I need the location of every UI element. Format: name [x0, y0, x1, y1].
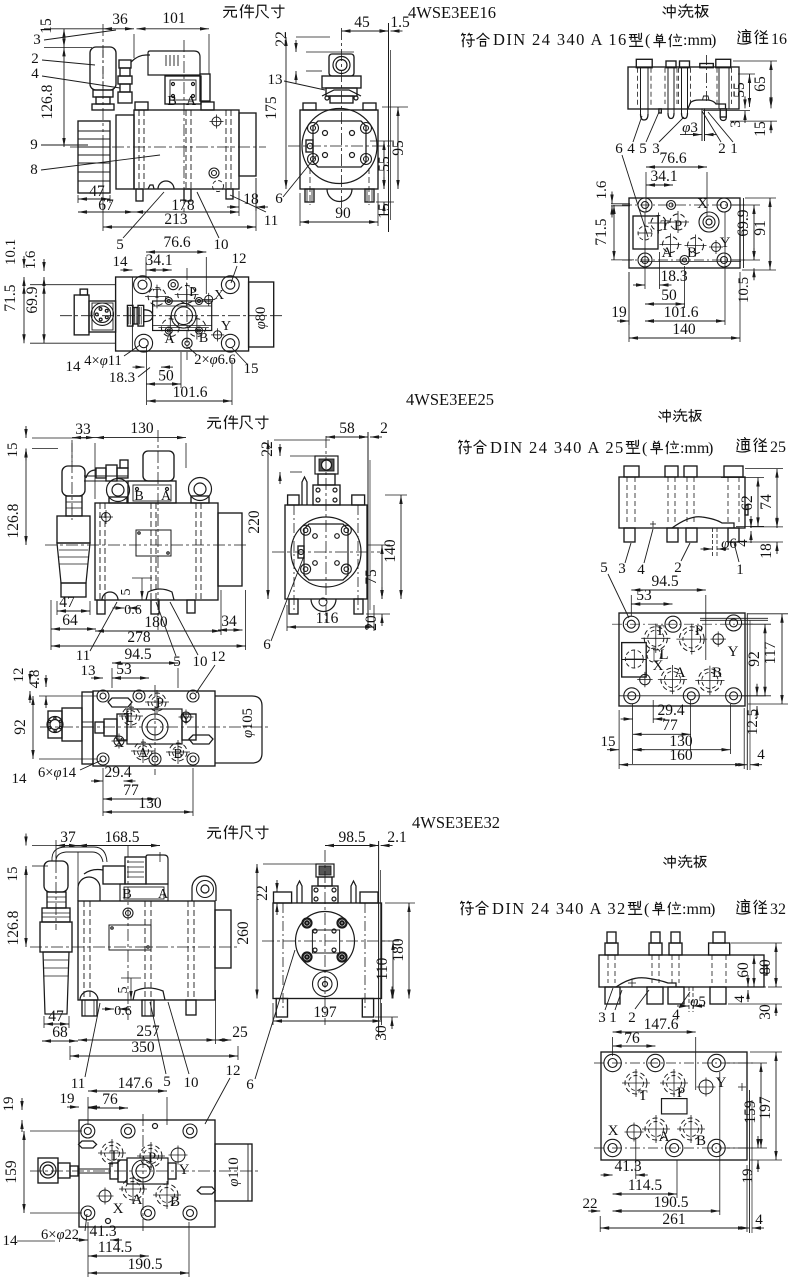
valve top X Y small ports [205, 295, 213, 303]
svg-text:T: T [638, 1088, 647, 1104]
dim 190.5 top 32 [88, 1272, 189, 1274]
svg-text:65: 65 [752, 76, 769, 92]
svg-text:11: 11 [71, 1076, 85, 1092]
vent plug 25 [102, 513, 111, 522]
side view inner flange 25 [304, 524, 348, 580]
dim 37 [56, 845, 78, 847]
svg-text:69.9: 69.9 [735, 209, 752, 236]
dim 10.5 vertical plate [753, 248, 755, 260]
dim 5 vertical 32 [130, 978, 132, 1000]
cable elbow [131, 55, 150, 62]
valve top middle assembly 32 [38, 1158, 58, 1183]
centerlines 32 front [30, 946, 240, 948]
valve top coupling stack [127, 305, 133, 326]
dim 101 [137, 28, 210, 30]
dim 159 vertical plate 32 [760, 1063, 762, 1148]
dim 95 vertical [397, 107, 399, 189]
svg-text:4: 4 [637, 562, 645, 578]
svg-text:74: 74 [758, 494, 775, 510]
valve top small ports 32 [171, 1148, 185, 1162]
dim 160 plate 25 [619, 764, 744, 766]
svg-text:): ) [708, 440, 713, 457]
heading: flushing plate (section 25) [659, 410, 670, 422]
svg-text:A: A [186, 94, 197, 109]
dim 50 plate [645, 303, 685, 305]
dim 34.1 plate [646, 184, 673, 186]
plate seal land curve [688, 100, 726, 108]
valve top bolts 25 [97, 690, 109, 702]
side view tie rod dashed lines [309, 168, 311, 205]
svg-text:A: A [675, 665, 686, 681]
plate stud dashed holes 32 [607, 955, 609, 983]
dim 10.1 vertical top view [23, 256, 25, 268]
svg-text:14: 14 [12, 771, 28, 787]
svg-text:50: 50 [661, 287, 677, 304]
svg-text:5: 5 [173, 654, 181, 670]
svg-text:A: A [138, 746, 149, 761]
svg-text:2: 2 [380, 420, 388, 437]
plate studs above 32 [605, 943, 618, 955]
svg-text:P: P [189, 285, 197, 300]
dim 260 vertical [256, 864, 258, 999]
dim 197 vertical plate 32 [775, 1052, 777, 1160]
svg-text:15: 15 [5, 443, 21, 458]
svg-text:260: 260 [235, 921, 252, 945]
dim 77 plate 25 [633, 733, 691, 735]
svg-text:1.6: 1.6 [23, 250, 39, 269]
svg-text:5: 5 [600, 560, 608, 576]
feet 25 [97, 600, 105, 614]
valve top view rect 16 [116, 277, 249, 351]
valve top ports 25 [148, 693, 166, 711]
svg-text:45: 45 [354, 14, 370, 31]
svg-text:A: A [158, 887, 169, 902]
dim 18.3 top view [133, 366, 145, 368]
svg-text:14: 14 [3, 1233, 19, 1249]
svg-text:213: 213 [164, 211, 188, 228]
svg-text:B: B [173, 747, 182, 762]
svg-text:8: 8 [30, 162, 38, 178]
dim 71.5 vertical top view [23, 285, 25, 344]
svg-text:126.8: 126.8 [39, 84, 56, 119]
svg-text:76: 76 [102, 1091, 118, 1108]
horizontal centerline front view [70, 146, 266, 148]
dim 41.3 plate 32 [601, 1174, 613, 1176]
dim 71.5 vertical plate [613, 205, 615, 260]
dim 213 [103, 226, 256, 228]
dim 45 [342, 30, 389, 32]
dim 60 vertical 32 [753, 955, 755, 987]
svg-text:B: B [170, 1194, 180, 1210]
port B dashed [688, 238, 704, 254]
svg-text:T: T [153, 287, 162, 302]
svg-text:B: B [712, 665, 722, 681]
svg-text:2×φ6.6: 2×φ6.6 [194, 352, 236, 368]
dim 101.6 plate [645, 320, 725, 322]
body internals dashed 32 [83, 901, 85, 1000]
svg-text:4: 4 [757, 747, 765, 763]
connector sub-block right [200, 74, 210, 101]
dim 69.9 vertical top view [43, 285, 45, 344]
dim 261 plate 32 [600, 1227, 747, 1229]
plate top corner bolts [638, 198, 652, 212]
svg-text:92: 92 [12, 719, 29, 735]
dim 19 plate [617, 320, 629, 322]
dim 197 32 [273, 1020, 382, 1022]
label: nominal size 25 [737, 438, 750, 452]
valve top centerlines 32 [30, 1170, 260, 1172]
dim 33 [72, 437, 95, 439]
svg-text:1: 1 [730, 141, 738, 157]
dim 110 vertical 32 [392, 941, 394, 999]
subplate reference line 1.5 [388, 23, 390, 232]
valve top left flange 25 [82, 692, 93, 764]
feet under body [136, 189, 143, 201]
plate stud 3 [680, 61, 690, 68]
svg-text:76.6: 76.6 [163, 234, 190, 251]
dim 55 plate vertical [749, 74, 751, 107]
svg-text:P: P [695, 623, 703, 639]
svg-text:12: 12 [226, 1063, 241, 1079]
svg-text:2.1: 2.1 [387, 829, 406, 846]
svg-text:φ105: φ105 [240, 708, 256, 738]
pipe lines 25 [82, 721, 93, 723]
svg-text:5: 5 [116, 987, 131, 994]
valve top middle assembly 25 [95, 722, 104, 733]
dim 76.6 top view [146, 251, 206, 253]
svg-text:75: 75 [363, 569, 380, 585]
dim 25 32 [216, 1039, 232, 1041]
plate right nub 32 [764, 965, 767, 975]
svg-text:67: 67 [98, 197, 114, 214]
centerlines 25 front [45, 544, 248, 546]
svg-text:47: 47 [59, 594, 75, 611]
feet 32 [82, 1000, 97, 1016]
side view: body square 16 [300, 110, 378, 189]
plug stack 32 [125, 857, 146, 884]
svg-text:13: 13 [268, 72, 283, 88]
svg-text:4WSE3EE32: 4WSE3EE32 [412, 813, 500, 832]
svg-text:(: ( [644, 901, 649, 918]
svg-text:0.6: 0.6 [124, 603, 142, 618]
lifting eye right [189, 478, 212, 501]
svg-text:B: B [122, 887, 131, 902]
pilot valve body 25 [128, 481, 176, 503]
tie-rod dashed holes in body [138, 110, 140, 189]
svg-text:101.6: 101.6 [173, 384, 208, 401]
subplate line 2.1 32 [378, 841, 380, 1037]
svg-text:76.6: 76.6 [659, 150, 686, 167]
svg-text:(: ( [645, 32, 650, 49]
svg-text:A: A [161, 489, 172, 504]
svg-text:3: 3 [618, 561, 626, 577]
nameplate 32 [109, 925, 151, 950]
dim 1.6 vertical plate [611, 192, 613, 204]
side top tabs 32 [274, 892, 292, 903]
svg-text:15: 15 [376, 203, 393, 219]
plate port cap center [700, 64, 714, 68]
bottom locating notch arc [158, 181, 174, 189]
dim 147.6 plate 32 [613, 1031, 696, 1033]
svg-text:4: 4 [31, 66, 39, 82]
valve top spool assembly [153, 301, 212, 331]
svg-text:140: 140 [672, 321, 696, 338]
svg-text:147.6: 147.6 [644, 1016, 679, 1033]
svg-text:11: 11 [264, 213, 278, 229]
svg-text:130: 130 [130, 420, 154, 437]
plate top view rect 16 [629, 198, 740, 268]
dim 4 plate 32 [738, 1227, 750, 1229]
svg-text:12.5: 12.5 [745, 709, 761, 735]
plate ports 25 [644, 627, 667, 650]
dim 14 top view [120, 269, 132, 271]
dim 92 vertical top 25 [32, 696, 34, 759]
port P dashed [670, 214, 686, 230]
svg-text:Y: Y [728, 644, 739, 660]
svg-text:10: 10 [214, 237, 229, 253]
plate studs below 32 [605, 987, 620, 1004]
svg-text:36: 36 [112, 11, 128, 28]
svg-text:69.9: 69.9 [24, 286, 41, 313]
dim 12.5 vertical plate 25 [756, 684, 758, 696]
dim 15 vertical 25 [25, 426, 27, 438]
valve top centerlines [60, 315, 282, 317]
svg-text:94.5: 94.5 [124, 646, 151, 663]
front view: valve body 25 [95, 503, 218, 600]
valve top small ports 25 [181, 712, 191, 722]
dim 190.5 plate 32 [613, 1210, 720, 1212]
svg-text:B: B [167, 94, 176, 109]
valve top center big circle [171, 303, 196, 328]
dim 77 top 25 [103, 798, 157, 800]
dim 257 32 [78, 1039, 216, 1041]
svg-text:34: 34 [221, 613, 237, 630]
front view: pilot block item 9 [78, 121, 110, 193]
dim 19 vertical plate 32 [757, 1136, 759, 1148]
svg-text:10: 10 [184, 1075, 199, 1091]
dim 15 plate 25 [607, 749, 619, 751]
dim 76.6 plate [646, 166, 707, 168]
plate top edge reference lines [611, 203, 630, 205]
dim 15 vertical [63, 29, 65, 48]
svg-text::mm: :mm [683, 32, 713, 49]
svg-text:94.5: 94.5 [651, 573, 678, 590]
side inner rect 32 [312, 930, 339, 953]
port Y small [712, 243, 721, 252]
dim 350 32 [70, 1055, 238, 1057]
plate small cross right 32 [738, 1086, 746, 1088]
dim 53 plate 25 [631, 603, 672, 605]
side top tabs 25 [288, 495, 299, 505]
dim 76 plate 32 [613, 1045, 656, 1047]
main electrical connector block [148, 51, 200, 75]
dim 15 plate vertical [770, 96, 772, 108]
dim 18.3 plate [633, 284, 645, 286]
dim 74 vertical [776, 469, 778, 527]
svg-text:160: 160 [669, 747, 693, 764]
side tie rod dash lines 25 [293, 505, 295, 610]
valve top lugs 32 [79, 1141, 97, 1148]
plate right nub 25 [745, 505, 748, 515]
svg-text:110: 110 [374, 957, 391, 980]
left filter stack 25 [62, 466, 85, 496]
dim 19 vertical top 32 [21, 1098, 23, 1110]
dim 47 25 [57, 610, 90, 612]
plate top rect 32 [601, 1052, 747, 1160]
svg-text:58: 58 [339, 420, 355, 437]
svg-text:77: 77 [662, 717, 678, 734]
svg-text:X: X [113, 1201, 124, 1217]
svg-text:64: 64 [62, 612, 78, 629]
svg-text:126.8: 126.8 [5, 910, 22, 945]
dim phi5 pin 32 [688, 987, 690, 1012]
vent plug circle top right [212, 117, 221, 126]
svg-text:5: 5 [116, 237, 124, 253]
side view body 32 [273, 903, 382, 999]
svg-text:B: B [687, 245, 697, 261]
dim 19 top 32 [67, 1106, 79, 1108]
dim 4.8 vertical 25 [45, 675, 47, 687]
svg-text:φ80: φ80 [253, 307, 269, 330]
svg-text:175: 175 [263, 96, 280, 120]
valve top left connector box [74, 295, 89, 335]
svg-text:T: T [655, 623, 664, 639]
svg-text:14: 14 [66, 359, 82, 375]
svg-text:6: 6 [263, 637, 271, 653]
front view: valve body 16 [134, 110, 239, 189]
dome left on body top [78, 877, 100, 901]
front view: valve body 32 [78, 901, 215, 1000]
plate L port 25 [647, 648, 661, 662]
svg-text:55: 55 [731, 82, 748, 98]
valve top ports dashed [148, 288, 166, 306]
dim 180 25 [95, 630, 221, 632]
svg-text:3: 3 [33, 32, 41, 48]
valve top right extension phi80 [249, 282, 274, 347]
svg-text:92: 92 [746, 651, 763, 667]
svg-text:12: 12 [211, 649, 226, 665]
plate centerlines 32 [594, 1062, 756, 1064]
side feet 32 [276, 999, 287, 1018]
connector elbow 32 [103, 866, 125, 884]
svg-text:47: 47 [48, 1008, 64, 1025]
svg-text:25: 25 [770, 439, 786, 456]
plate top bolts 25 [623, 616, 639, 632]
svg-text:41.3: 41.3 [614, 1158, 641, 1175]
side view circle 32 [296, 912, 355, 971]
connector item 4 fittings [119, 60, 131, 68]
side port stub [306, 140, 313, 152]
dim phi3 pin [701, 108, 703, 141]
dim 68 32 [42, 1040, 78, 1042]
dim 94.5 top 25 [112, 662, 178, 664]
vent plug 32 [123, 908, 133, 918]
dim 5 vertical 25 [141, 578, 143, 600]
side centerlines 32 [324, 850, 326, 1025]
spec line: DIN 24 340 A 32 (unit mm) [461, 901, 474, 914]
dim 30 vertical plate 32 [775, 975, 777, 987]
svg-text:4: 4 [627, 141, 635, 157]
svg-text:62: 62 [739, 495, 756, 511]
dim 114.5 top 32 [88, 1255, 149, 1257]
svg-text:X: X [608, 1123, 619, 1139]
valve top lugs 25 [108, 698, 132, 707]
plate ports 32 [625, 1072, 647, 1094]
dome right on body top [192, 876, 216, 901]
dim 117 vertical plate 25 [781, 614, 783, 704]
plate studs above 25 [624, 466, 639, 477]
front view: right end cap 25 [218, 513, 242, 586]
plate top step lines right [700, 617, 768, 619]
svg-text:147.6: 147.6 [118, 1075, 153, 1092]
front view: right end cap 32 [215, 910, 231, 968]
dim 140 vertical 25 [400, 495, 402, 599]
svg-text:18.3: 18.3 [660, 268, 687, 285]
plate seal land 25 [672, 517, 734, 528]
dim 47 [78, 198, 110, 200]
pilot valve body under connector [165, 76, 201, 104]
svg-text:10: 10 [193, 654, 208, 670]
svg-text:B: B [134, 489, 143, 504]
bottom arches 32 [80, 991, 98, 1000]
svg-text:4WSE3EE25: 4WSE3EE25 [406, 390, 494, 409]
svg-text:1.6: 1.6 [594, 180, 610, 199]
front view: left spacer block [116, 115, 134, 189]
spec line: DIN 24 340 A 25 (unit mm) [459, 440, 472, 453]
svg-text:30: 30 [757, 1004, 774, 1020]
heading: flushing plate (section 32) [664, 856, 675, 868]
svg-text:18: 18 [758, 543, 775, 559]
svg-text:25: 25 [232, 1024, 248, 1041]
subplate line 2mm 25 [367, 432, 369, 629]
svg-text:2: 2 [628, 1010, 636, 1026]
side centerline 25 [325, 436, 327, 625]
plate center rect 32 [662, 1099, 688, 1114]
dim 101.6 top view [147, 400, 232, 402]
dim 29.4 top 25 [91, 780, 103, 782]
dim 76 top 32 [88, 1107, 128, 1109]
lifting eye left [107, 479, 130, 502]
small pin top view 32 [153, 1124, 158, 1129]
svg-text:P: P [677, 1085, 685, 1101]
side view body 25 [285, 505, 367, 599]
svg-text:(: ( [642, 440, 647, 457]
dim 2 [356, 436, 368, 438]
dim 130 [95, 437, 186, 439]
dim 15 vertical 32 [25, 834, 27, 846]
plate top small pins [667, 201, 676, 210]
svg-text:X: X [214, 288, 224, 303]
svg-text:220: 220 [246, 510, 263, 534]
plate small cross 25 [650, 523, 656, 525]
plate side bar 25 [619, 477, 745, 528]
svg-text:0.6: 0.6 [114, 1004, 132, 1019]
svg-text:53: 53 [636, 587, 652, 604]
dim 126.8 vertical 32 [25, 866, 27, 947]
solenoid coil 25 [143, 451, 174, 481]
svg-text:37: 37 [60, 829, 76, 846]
svg-text:T: T [660, 218, 669, 234]
svg-text:12: 12 [11, 668, 27, 683]
nameplate 25 [136, 530, 171, 556]
solenoid item 2 [90, 47, 116, 90]
valve top right block 32 [215, 1144, 252, 1201]
side view flange bolts [308, 123, 319, 134]
dim 147.6 top 32 [88, 1090, 167, 1092]
svg-text:6: 6 [275, 191, 283, 207]
svg-text:φ6: φ6 [721, 536, 737, 552]
dim 75 vertical 25 [381, 545, 383, 599]
